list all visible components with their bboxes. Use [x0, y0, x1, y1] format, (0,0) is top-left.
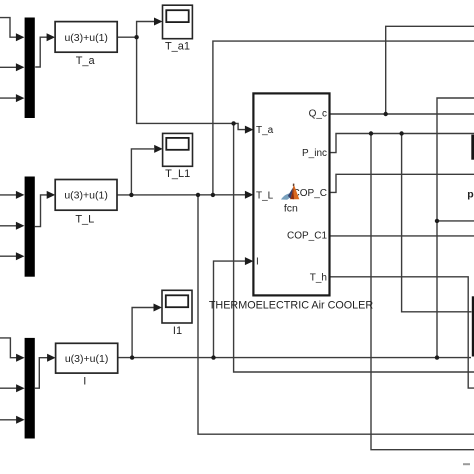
svg-text:I: I — [83, 376, 86, 388]
junction I branch 220.9 — [435, 219, 439, 223]
junction P_inc 371 — [369, 131, 373, 135]
junction I to block — [211, 355, 215, 359]
scope T_L1 — [163, 133, 193, 180]
scope T_a1 — [163, 5, 193, 52]
wire mux1 input3 — [0, 97, 17, 99]
wire Q_c output — [329, 113, 474, 115]
junction T_a to block — [231, 121, 235, 125]
svg-text:I: I — [256, 257, 259, 268]
arrowhead scope T_a1 in — [154, 18, 163, 26]
junction I right column — [435, 355, 439, 359]
block B cut off at right edge — [472, 296, 474, 356]
wire P_inc branch down at 371 — [371, 134, 474, 450]
arrowhead mux2 in1 — [16, 191, 25, 199]
arrowhead I block in — [47, 354, 56, 362]
wire T_a block output to junction — [117, 36, 136, 38]
junction P_inc 401.6 — [399, 131, 403, 135]
wire COP_C1 output — [329, 235, 474, 237]
svg-text:T_a: T_a — [256, 125, 274, 136]
junction Q_c branch — [384, 112, 388, 116]
svg-text:I1: I1 — [173, 325, 182, 337]
wire I block output rail — [118, 357, 471, 359]
arrowhead T_a block in — [47, 33, 56, 41]
wire mux1 output to T_a block — [35, 37, 47, 67]
block A cut off at right edge — [471, 135, 474, 160]
wire jog into T_a port — [234, 123, 246, 129]
arrowhead mux3 in3 — [16, 416, 25, 424]
mux M2 — [25, 177, 35, 277]
svg-text:p: p — [467, 188, 473, 200]
wire T_h output — [329, 277, 474, 388]
svg-text:Q_c: Q_c — [309, 109, 327, 120]
svg-text:T_L: T_L — [256, 190, 274, 201]
svg-text:T_a1: T_a1 — [165, 41, 190, 53]
svg-text:T_h: T_h — [310, 272, 327, 283]
svg-text:T_L1: T_L1 — [165, 168, 190, 180]
tiny label fragment bottom right — [463, 463, 470, 465]
svg-text:u(3)+u(1): u(3)+u(1) — [65, 353, 108, 365]
scope I1 — [162, 290, 192, 337]
block T_a expression u(3)+u(1) — [55, 22, 117, 67]
wire I branch up right column — [437, 98, 474, 358]
block I expression u(3)+u(1) — [56, 343, 118, 387]
wire mux2 input2 — [0, 225, 17, 227]
MATLAB function block U1 THERMOELECTRIC Air COOLER — [209, 93, 374, 311]
junction T_L up — [211, 193, 215, 197]
arrowhead fcn T_a in — [245, 126, 254, 134]
wire T_L branch up to top rail — [213, 41, 474, 195]
junction T_L down — [196, 193, 200, 197]
svg-text:T_a: T_a — [76, 55, 96, 67]
wire T_a branch down to bottom rail — [234, 123, 474, 372]
junction T_a scope — [134, 35, 138, 39]
wire mux1 input1 — [0, 18, 17, 38]
arrowhead mux2 in3 — [16, 252, 25, 260]
block T_L expression u(3)+u(1) — [55, 180, 117, 226]
wire junction down to T_a input — [137, 37, 234, 123]
arrowhead mux2 in2 — [16, 222, 25, 230]
svg-text:P_inc: P_inc — [302, 148, 327, 159]
wire mux2 output to T_L block — [35, 195, 48, 227]
arrowhead scope T_L1 in — [154, 145, 163, 153]
mux M1 — [25, 18, 35, 119]
svg-text:COP_C1: COP_C1 — [287, 231, 327, 242]
wire branch up to scope T_L1 — [131, 149, 154, 195]
svg-text:fcn: fcn — [284, 203, 298, 215]
arrowhead mux3 in1 — [16, 354, 25, 362]
wire COP_C output — [329, 174, 474, 192]
arrowhead mux1 in1 — [16, 33, 25, 41]
svg-text:T_L: T_L — [75, 213, 94, 225]
arrowhead mux1 in2 — [16, 63, 25, 71]
junction I scope — [130, 355, 134, 359]
wire P_inc output — [329, 134, 474, 153]
wire junction up to scope T_a1 — [137, 22, 154, 38]
arrowhead fcn I in — [245, 257, 254, 265]
wire mux2 input3 — [0, 255, 17, 257]
wire I branch right at 220.9 — [437, 220, 474, 222]
wire Q_c branch up — [386, 26, 474, 114]
wire mux3 input1 — [0, 338, 17, 358]
mux M3 — [25, 338, 35, 439]
arrowhead T_L block in — [47, 191, 56, 199]
arrowhead mux3 in2 — [16, 384, 25, 392]
wire branch up to scope I1 — [132, 308, 154, 358]
wire T_L block output to T_L input — [117, 194, 246, 196]
wire branch up to I input — [214, 261, 246, 358]
wire mux1 input2 — [0, 66, 17, 68]
wire T_L branch down to bottom rail — [198, 195, 474, 434]
arrowhead scope I1 in — [154, 304, 163, 312]
junction T_L scope — [129, 193, 133, 197]
svg-text:u(3)+u(1): u(3)+u(1) — [64, 32, 107, 44]
MATLAB logo inside function block — [281, 184, 299, 215]
wire mux3 input2 — [0, 387, 17, 389]
svg-text:THERMOELECTRIC Air COOLER: THERMOELECTRIC Air COOLER — [209, 300, 374, 312]
wire mux3 output to I block — [35, 358, 48, 389]
arrowhead fcn T_L in — [245, 191, 254, 199]
wire P_inc branch down at 401.6 — [402, 134, 472, 312]
svg-text:u(3)+u(1): u(3)+u(1) — [64, 190, 107, 202]
arrowhead mux1 in3 — [16, 94, 25, 102]
wire mux3 input3 — [0, 419, 17, 421]
wire mux2 input1 — [0, 194, 17, 196]
